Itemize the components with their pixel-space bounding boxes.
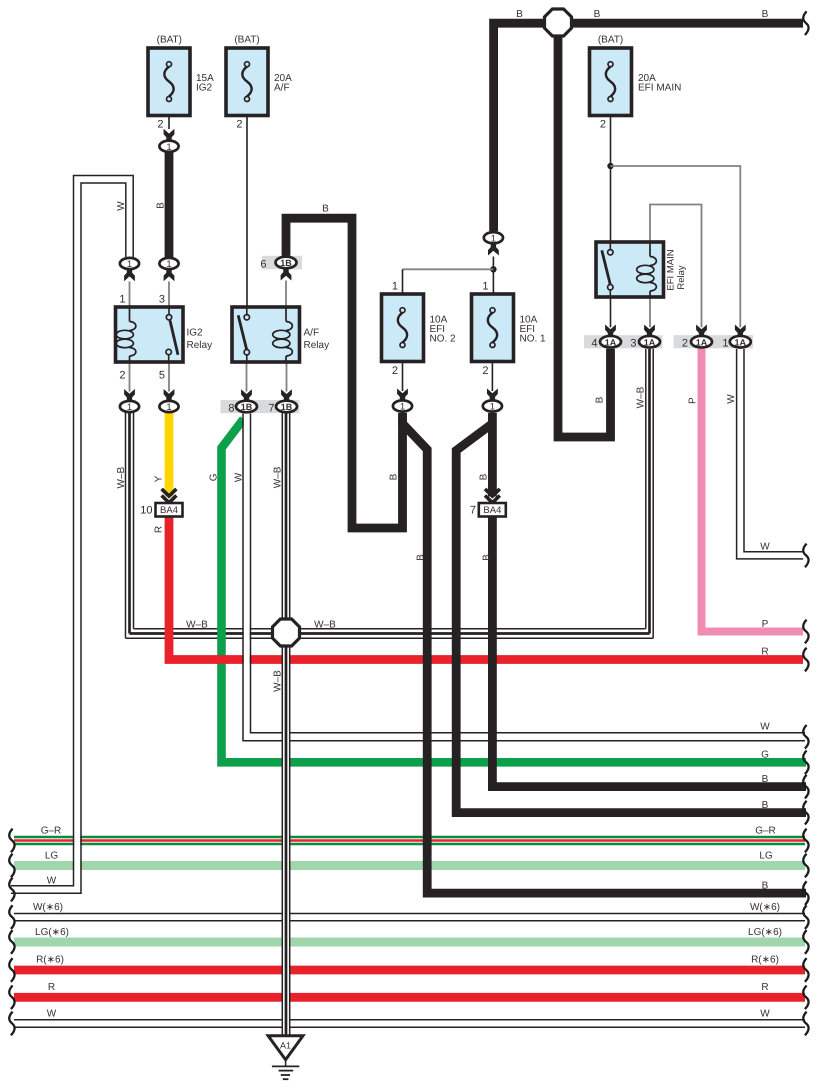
pin line gray IG2 relay pin 1 bbox=[129, 282, 131, 308]
wire B from IG2 fuse to IG2 relay pin 3 bbox=[165, 152, 174, 257]
svg-text:7: 7 bbox=[470, 505, 476, 517]
svg-text:1A: 1A bbox=[735, 338, 747, 348]
node junction octagon top bus bbox=[545, 9, 572, 36]
connector oval 1 below IG2 relay pin 2 bbox=[120, 389, 139, 413]
svg-text:W–B: W–B bbox=[314, 620, 336, 631]
pin line gray A/F relay pin 7 bbox=[286, 362, 288, 392]
svg-text:W(∗6): W(∗6) bbox=[33, 902, 63, 913]
svg-text:B: B bbox=[322, 204, 329, 215]
break symbol LG(*6) left bbox=[9, 930, 14, 954]
break symbol B bus2 right bbox=[803, 801, 808, 825]
svg-text:G: G bbox=[209, 473, 220, 481]
connector oval 8 (1B) below A/F relay bbox=[228, 389, 257, 414]
connector 10 BA4 bbox=[140, 489, 182, 517]
svg-text:1B: 1B bbox=[280, 258, 292, 268]
break symbol LG left bbox=[9, 854, 14, 878]
pin line gray A/F relay pin 8 bbox=[246, 362, 248, 392]
wire B from EFI NO.1 fuse via BA4 to right edge (B bus 1) bbox=[492, 413, 806, 787]
svg-text:BA4: BA4 bbox=[483, 505, 501, 516]
svg-text:4: 4 bbox=[591, 338, 597, 350]
svg-text:W–B: W–B bbox=[116, 466, 127, 488]
svg-text:IG2: IG2 bbox=[187, 328, 204, 339]
svg-text:1: 1 bbox=[491, 234, 496, 245]
wire B from EFI NO.1 fuse diagonal to right edge (B bus 2) bbox=[456, 424, 806, 813]
wire LG bus bbox=[14, 861, 805, 870]
break symbol W(*6) left bbox=[9, 905, 14, 929]
svg-text:R: R bbox=[761, 647, 768, 658]
svg-text:W: W bbox=[116, 201, 127, 211]
svg-text:LG: LG bbox=[45, 851, 59, 862]
svg-text:G–R: G–R bbox=[41, 826, 62, 837]
svg-text:10: 10 bbox=[140, 505, 152, 517]
break symbol R right bbox=[803, 648, 808, 672]
node junction dot EFI NO.1 branch bbox=[490, 266, 496, 272]
wire R(*6) bus bbox=[14, 966, 805, 975]
pin line gray IG2 relay pin 5 bbox=[168, 362, 170, 392]
svg-text:A/F: A/F bbox=[304, 328, 320, 339]
svg-text:2: 2 bbox=[482, 365, 488, 377]
connector band 8/7 (1B) bbox=[221, 400, 300, 413]
svg-text:IG2: IG2 bbox=[196, 83, 213, 94]
svg-text:LG: LG bbox=[759, 851, 773, 862]
relay IG2 bbox=[116, 294, 213, 382]
svg-text:R: R bbox=[761, 982, 768, 993]
break symbol B bus1 right bbox=[803, 775, 808, 799]
svg-text:P: P bbox=[762, 619, 769, 630]
wire W-B horizontal (IG2 pin 2 / A-F pin 7 / EFI MAIN pin 3 junction line) bbox=[126, 629, 654, 638]
svg-text:P: P bbox=[688, 397, 699, 404]
fuse 20A A/F bbox=[226, 34, 292, 130]
svg-text:1: 1 bbox=[490, 402, 495, 413]
svg-text:1: 1 bbox=[400, 402, 405, 413]
svg-text:R(∗6): R(∗6) bbox=[751, 955, 779, 966]
wire W-B vertical from A/F relay pin 7 (1B) to ground A1 bbox=[282, 413, 289, 1036]
svg-text:B: B bbox=[516, 9, 523, 20]
svg-text:EFI MAIN: EFI MAIN bbox=[666, 249, 677, 290]
svg-text:1A: 1A bbox=[644, 338, 656, 348]
break symbol W upper right bbox=[803, 544, 808, 568]
connector oval 1 above IG2 relay pin 1 bbox=[120, 258, 139, 281]
break symbol W(*6) right bbox=[803, 905, 808, 929]
wire thin EFI NO.1 fuse pin 2 to connector bbox=[491, 362, 493, 392]
svg-text:B: B bbox=[762, 800, 769, 811]
svg-text:Relay: Relay bbox=[304, 340, 330, 351]
break symbol B bus3 right bbox=[803, 881, 808, 905]
svg-text:W–B: W–B bbox=[273, 466, 284, 488]
connector oval 1 below EFI NO.1 fuse bbox=[483, 389, 502, 413]
wire G (A/F relay pin 8 to right edge) bbox=[222, 419, 807, 762]
wire W-B vertical from EFI MAIN relay pin 3 (1A) bbox=[646, 349, 653, 638]
fuse 15A IG2 bbox=[148, 34, 214, 130]
break symbol LG right bbox=[803, 854, 808, 878]
svg-text:LG(∗6): LG(∗6) bbox=[35, 927, 69, 938]
break symbol P right bbox=[803, 620, 808, 644]
svg-text:1: 1 bbox=[127, 259, 132, 270]
ground A1 bbox=[268, 1036, 303, 1079]
svg-text:Relay: Relay bbox=[187, 340, 213, 351]
svg-text:W: W bbox=[760, 542, 770, 553]
wire gray loop from EFI MAIN relay coil top to pin 2 (1A) bbox=[650, 205, 702, 328]
wire R bus bbox=[14, 993, 805, 1002]
svg-text:B: B bbox=[482, 554, 493, 561]
node junction octagon W-B bbox=[273, 619, 300, 646]
svg-text:B: B bbox=[762, 881, 769, 892]
svg-text:W: W bbox=[234, 472, 245, 482]
connector band 2/1 (1A) bbox=[674, 335, 754, 348]
svg-text:B: B bbox=[479, 473, 490, 480]
pin line gray IG2 relay pin 3 bbox=[168, 282, 170, 308]
break symbol B top right bbox=[803, 11, 808, 35]
svg-text:B: B bbox=[595, 396, 606, 403]
svg-text:W–B: W–B bbox=[186, 620, 208, 631]
pin line gray IG2 relay pin 2 bbox=[129, 362, 131, 392]
connector oval 1 below IG2 fuse bbox=[159, 129, 178, 153]
svg-text:2: 2 bbox=[682, 338, 688, 350]
break symbol W bottom left bbox=[9, 1012, 14, 1036]
wire B from EFI NO.2 fuse to right edge (B bus low) bbox=[403, 413, 807, 893]
connector oval 1 below IG2 relay pin 5 bbox=[159, 389, 178, 413]
connector oval 1 below EFI NO.2 fuse bbox=[393, 389, 412, 413]
svg-text:W: W bbox=[760, 1009, 770, 1020]
svg-text:1A: 1A bbox=[605, 338, 617, 348]
svg-text:B: B bbox=[156, 202, 167, 209]
svg-text:W(∗6): W(∗6) bbox=[750, 902, 780, 913]
svg-text:5: 5 bbox=[159, 370, 165, 382]
wire R (BA4 to right edge) bbox=[169, 517, 803, 660]
wire thin from EFI MAIN fuse pin 2 to EFI MAIN relay bbox=[610, 116, 612, 243]
break symbol W bottom right bbox=[803, 1012, 808, 1036]
svg-text:1: 1 bbox=[166, 259, 171, 270]
fuse 20A EFI MAIN bbox=[590, 34, 682, 130]
svg-text:B: B bbox=[416, 554, 427, 561]
connector oval 1 above IG2 relay pin 3 bbox=[159, 258, 178, 281]
wire W from A/F relay pin 8 to right edge (W bus) bbox=[243, 414, 805, 741]
svg-text:3: 3 bbox=[159, 294, 165, 306]
connector 7 BA4 bbox=[470, 489, 506, 517]
svg-text:W: W bbox=[760, 722, 770, 733]
svg-text:2: 2 bbox=[119, 370, 125, 382]
break symbol W bus right bbox=[803, 725, 808, 749]
svg-text:W: W bbox=[47, 876, 57, 887]
wire thin EFI NO.2 fuse pin 2 to connector bbox=[402, 362, 404, 392]
svg-text:3: 3 bbox=[630, 338, 636, 350]
break symbol R(*6) right bbox=[803, 958, 808, 982]
relay EFI MAIN bbox=[596, 242, 687, 297]
svg-text:G: G bbox=[761, 750, 769, 761]
svg-text:NO. 1: NO. 1 bbox=[520, 334, 547, 345]
wire thin from IG2 fuse pin 2 bbox=[168, 116, 170, 130]
wire P (EFI MAIN relay pin 2 to right edge) bbox=[702, 349, 804, 632]
pin line EFI MAIN relay pin 4 bbox=[610, 297, 612, 327]
relay A/F bbox=[232, 307, 329, 362]
break symbol R bottom right bbox=[803, 986, 808, 1010]
break symbol G right bbox=[803, 751, 808, 775]
wire gray from junction dot to EFI MAIN relay pin 1 (1A) bbox=[611, 166, 741, 327]
wire gray branch to EFI NO.2 fuse pin 1 bbox=[403, 268, 494, 270]
svg-text:1A: 1A bbox=[696, 338, 708, 348]
connector oval 3 (1A) below EFI MAIN relay bbox=[630, 325, 660, 350]
break symbol R(*6) left bbox=[9, 958, 14, 982]
svg-text:2: 2 bbox=[157, 118, 163, 130]
connector band 4/3 (1A) bbox=[584, 335, 663, 348]
wire W from EFI MAIN relay pin 1 (1A) to right edge bbox=[737, 349, 803, 559]
fuse 10A EFI NO.2 bbox=[382, 281, 457, 378]
svg-text:Y: Y bbox=[154, 475, 165, 482]
svg-text:1: 1 bbox=[392, 281, 398, 293]
svg-text:1: 1 bbox=[166, 402, 171, 413]
svg-text:2: 2 bbox=[392, 365, 398, 377]
svg-text:W: W bbox=[47, 1009, 57, 1020]
svg-text:G–R: G–R bbox=[755, 826, 776, 837]
svg-text:1: 1 bbox=[127, 402, 132, 413]
svg-text:B: B bbox=[389, 473, 400, 480]
svg-text:BA4: BA4 bbox=[160, 505, 178, 516]
svg-text:1: 1 bbox=[166, 142, 171, 153]
svg-text:2: 2 bbox=[600, 118, 606, 130]
svg-text:1B: 1B bbox=[281, 402, 293, 412]
svg-text:W–B: W–B bbox=[636, 386, 647, 408]
svg-text:W–B: W–B bbox=[273, 670, 284, 692]
svg-text:NO. 2: NO. 2 bbox=[430, 334, 457, 345]
svg-text:1: 1 bbox=[722, 338, 728, 350]
connector oval 1 (1A) bbox=[722, 325, 750, 350]
connector oval 6 (1B) at A/F relay bbox=[260, 257, 296, 281]
svg-text:1: 1 bbox=[119, 294, 125, 306]
svg-text:A1: A1 bbox=[280, 1040, 291, 1050]
break symbol LG(*6) right bbox=[803, 930, 808, 954]
wire Y (IG2 relay pin 5 to BA4) bbox=[165, 411, 174, 497]
connector oval 7 (1B) below A/F relay bbox=[268, 389, 297, 414]
wire LG(*6) bus bbox=[14, 938, 805, 947]
connector oval 2 (1A) bbox=[682, 325, 712, 350]
break symbol G-R right bbox=[803, 829, 808, 853]
svg-text:B: B bbox=[762, 9, 769, 20]
wire B top bus with left drop bbox=[494, 23, 803, 231]
svg-text:EFI MAIN: EFI MAIN bbox=[638, 83, 681, 94]
wire W-B vertical from IG2 relay pin 2 bbox=[126, 413, 134, 639]
connector oval 1 above EFI NO.1 fuse bbox=[484, 232, 503, 255]
svg-text:(BAT): (BAT) bbox=[598, 34, 623, 45]
svg-text:2: 2 bbox=[236, 118, 242, 130]
break symbol W left bbox=[9, 878, 14, 902]
svg-text:R(∗6): R(∗6) bbox=[36, 955, 64, 966]
svg-text:B: B bbox=[762, 774, 769, 785]
wire B loop from A/F relay pin 6 (1B) to EFI NO.2 fuse pin 2 bbox=[286, 218, 403, 528]
svg-text:W: W bbox=[726, 394, 737, 404]
wire W from top-left down to left edge (W bus) bbox=[11, 176, 133, 894]
svg-text:6: 6 bbox=[260, 259, 266, 271]
connector oval 4 (1A) below EFI MAIN relay bbox=[591, 325, 621, 350]
connector band 6 (1B) bbox=[262, 256, 302, 269]
svg-text:1B: 1B bbox=[241, 402, 253, 412]
wire thin EFI NO.2 fuse pin 1 drop bbox=[402, 269, 404, 294]
break symbol R bottom left bbox=[9, 986, 14, 1010]
svg-text:B: B bbox=[594, 9, 601, 20]
svg-text:(BAT): (BAT) bbox=[157, 34, 182, 45]
svg-text:LG(∗6): LG(∗6) bbox=[748, 927, 782, 938]
node junction dot EFI MAIN fuse branch bbox=[607, 163, 613, 169]
wire W bottom bus bbox=[14, 1020, 805, 1027]
svg-text:(BAT): (BAT) bbox=[234, 34, 259, 45]
pin line gray EFI MAIN relay pin 3 bbox=[649, 297, 651, 327]
wire thin from B bus drop to EFI NO.1 fuse pin 1 bbox=[492, 257, 494, 295]
svg-text:Relay: Relay bbox=[676, 265, 687, 290]
fuse 10A EFI NO.1 bbox=[472, 281, 547, 378]
svg-text:A/F: A/F bbox=[274, 83, 290, 94]
pin line gray A/F relay pin 6 bbox=[285, 281, 287, 308]
wire W(*6) bus bbox=[14, 914, 805, 921]
svg-text:R: R bbox=[48, 982, 55, 993]
wire B from top junction down to EFI MAIN relay pin 4 (1A) bbox=[558, 30, 611, 437]
wire G-R bus bbox=[14, 837, 805, 844]
wire thin from A/F fuse pin 2 to A/F relay bbox=[246, 116, 248, 308]
svg-text:7: 7 bbox=[268, 403, 274, 415]
svg-text:1: 1 bbox=[482, 281, 488, 293]
svg-text:8: 8 bbox=[228, 403, 234, 415]
svg-text:R: R bbox=[154, 526, 165, 533]
break symbol G-R left bbox=[9, 829, 14, 853]
